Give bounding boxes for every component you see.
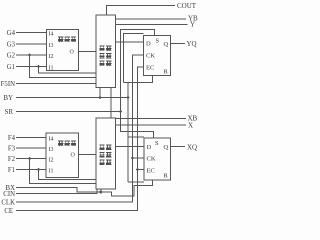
output labels [177,2,198,152]
wire CIN input [16,189,97,194]
wire BY to FF1 R [124,76,153,83]
wire XQ output [171,146,186,148]
svg-text:F1: F1 [8,167,15,174]
label 控制 [99,152,104,158]
LUT F internals [49,137,77,175]
input labels [1,30,16,215]
wire G2 input [16,54,47,56]
wire EC2 branch [138,169,145,171]
svg-text:BY: BY [4,95,14,102]
svg-text:D: D [146,41,151,48]
svg-text:EC: EC [147,168,155,175]
wire F1 branch vertical [39,170,97,180]
svg-text:I4: I4 [49,32,54,38]
label 进位 [99,144,104,150]
wire X output [116,124,187,126]
wire F4 input [16,137,46,139]
svg-text:I2: I2 [49,54,54,60]
svg-text:X: X [188,122,193,130]
svg-text:I4: I4 [49,137,54,143]
svg-text:Q: Q [164,144,169,151]
wire CE input [16,67,144,211]
node BX stub [99,191,102,194]
wire SR input [16,111,121,113]
svg-text:Q: Q [164,41,169,48]
wire branch to FF2 top-left [128,136,144,138]
wire LUT G output O [79,51,97,53]
wire F2 input [16,158,46,160]
wire XB output [116,118,187,120]
node F1 branch [37,168,40,171]
svg-text:R: R [164,69,169,76]
svg-text:G3: G3 [7,42,16,49]
wire YB output [116,18,187,20]
svg-text:I2: I2 [49,158,54,164]
svg-text:G1: G1 [7,64,15,71]
svg-text:G2: G2 [7,53,16,60]
node BY stub [99,96,102,99]
wire aux route to FF1 [124,34,144,83]
svg-text:I3: I3 [49,147,54,153]
wire G1 branch vertical [39,67,97,74]
svg-text:I1: I1 [49,66,54,72]
FF2 pin labels [147,140,169,180]
wire BY stub into carry box [99,88,101,98]
label 查找表 (LUT) [58,37,76,43]
wire carry chain between boxes [110,88,112,119]
wire F1 input [16,169,46,171]
wire YQ output [171,43,186,45]
node CK2 [131,157,134,160]
label 逻辑 [99,61,104,67]
svg-text:R: R [164,173,169,180]
label 进位 [99,46,104,52]
svg-text:I3: I3 [49,43,54,49]
wire CK2 branch [133,157,145,159]
svg-text:CK: CK [146,53,155,60]
svg-text:F4: F4 [8,135,16,142]
label 控制 [99,53,104,59]
wire BY input [16,97,128,99]
svg-text:F5IN: F5IN [1,81,15,88]
FF1 pin labels [146,38,169,76]
svg-text:YQ: YQ [187,40,197,48]
svg-text:CK: CK [147,156,156,163]
svg-text:F3: F3 [8,146,16,153]
wire COUT output [107,6,176,16]
flip-flop FF1 box [144,36,171,76]
flip-flop FF2 box [144,138,171,180]
svg-text:CIN: CIN [3,191,15,198]
wire F2 branch vertical [30,159,97,184]
wire BX input with step under carry box [16,180,153,196]
node EC2 [136,168,139,171]
svg-text:SR: SR [5,109,14,116]
svg-text:G4: G4 [7,30,16,37]
node SR junction [119,110,122,113]
wire F3 input [16,147,46,149]
label 逻辑 [99,159,104,165]
junction dots [28,54,139,194]
wire G1 input [16,66,47,68]
wire Y output [116,24,188,26]
svg-text:CE: CE [4,208,13,215]
wire G4 input [16,32,47,34]
svg-text:F2: F2 [8,156,16,163]
node BY riser [127,96,130,99]
carry control logic box U4 (进位控制逻辑 bottom) [96,118,116,189]
LUT G (查找表) box U1 [47,30,79,71]
svg-text:S: S [155,140,159,147]
node F2 branch [28,157,31,160]
LUT F (查找表) box U2 [46,133,79,178]
LUT G internals [49,32,77,72]
wire G2 branch vertical [30,55,97,78]
wire G3 input [16,43,47,45]
wire BY long vertical to FF1 R and FF2 [127,83,129,183]
svg-text:XQ: XQ [187,144,197,152]
wire CLK input [16,55,144,202]
label 查找表 (LUT) [58,141,76,147]
carry control logic box U3 (进位控制逻辑 top) [96,15,116,88]
node G2 branch [28,54,31,57]
wire F5IN input [16,83,96,85]
svg-text:O: O [70,50,75,56]
wire SR to FF1 S and FF2 S vertical [121,30,155,139]
wire D2 input from carry logic [116,146,145,148]
svg-text:CLK: CLK [1,200,15,207]
carry box 2 text 进位控制逻辑 [99,144,111,165]
wire LUT F output O [79,154,97,156]
svg-text:O: O [71,153,76,159]
svg-text:EC: EC [146,65,154,72]
svg-text:D: D [147,144,152,151]
wire aux route to FF2 bottom-left [128,181,144,183]
wire D1 input from carry logic [116,41,144,43]
svg-text:Y: Y [190,21,195,29]
node G1 branch [37,65,40,68]
wire BX stub into carry box [100,189,102,192]
svg-text:I1: I1 [49,169,54,175]
svg-text:S: S [156,38,160,45]
carry box 1 text 进位控制逻辑 [99,46,111,67]
svg-text:COUT: COUT [177,2,197,10]
